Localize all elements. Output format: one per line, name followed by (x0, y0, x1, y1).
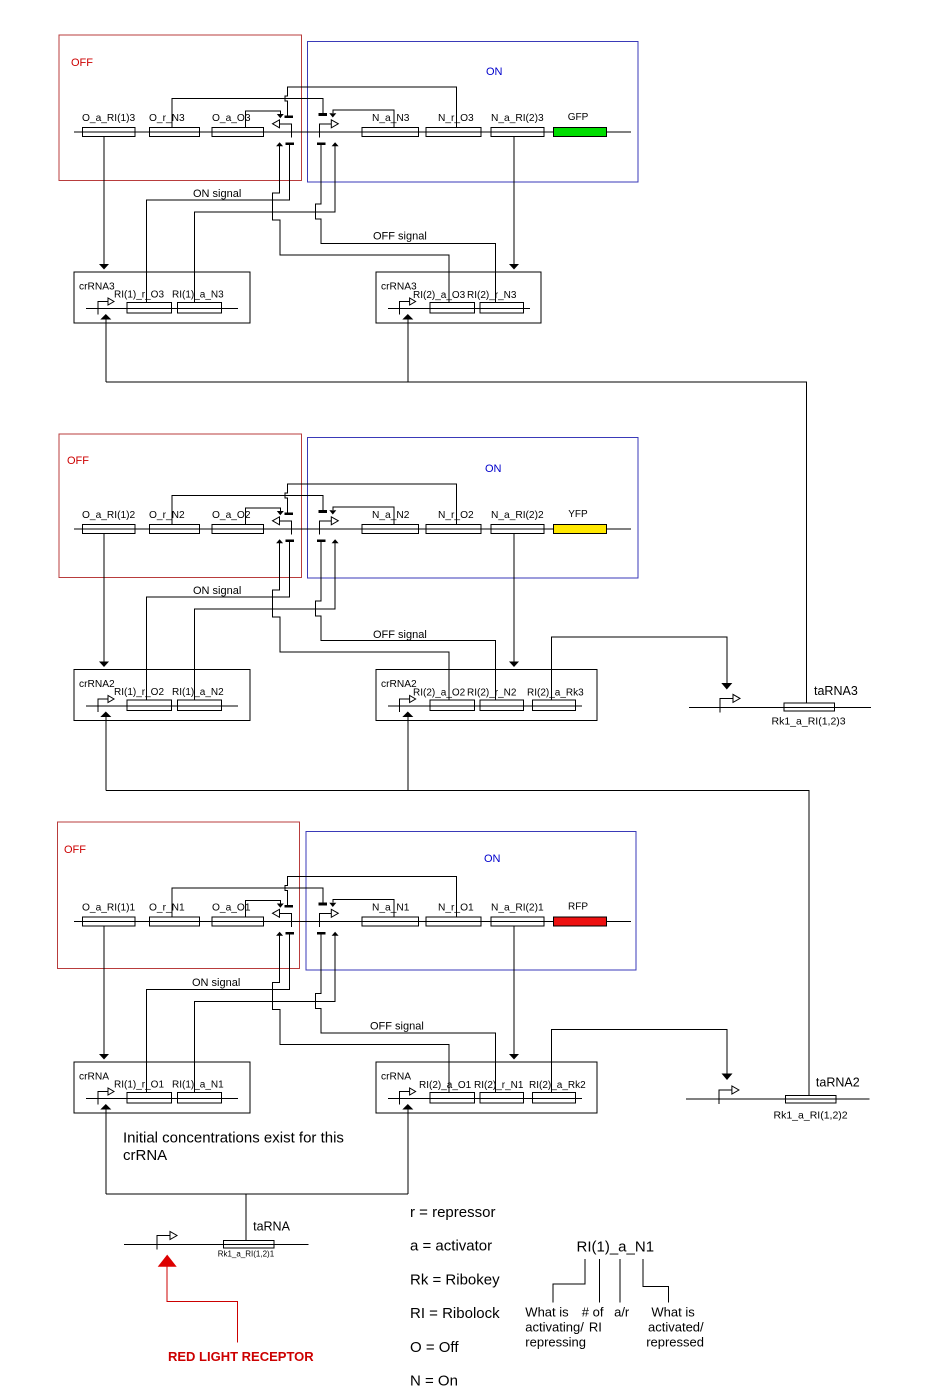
block RI(2)_a_Rk2 (tier 1) (533, 1093, 576, 1103)
svg-text:ON signal: ON signal (193, 188, 241, 200)
svg-text:activating/: activating/ (525, 1320, 584, 1335)
wire N_a_RI(2)3 to right crRNA box (tier 3) (513, 137, 515, 265)
activation arrowhead on OFF promoter (tier 3) (277, 114, 284, 118)
svg-text:O_a_RI(1)1: O_a_RI(1)1 (82, 903, 136, 914)
svg-text:crRNA: crRNA (123, 1147, 167, 1164)
repression bar on ON promoter (tier 2) (319, 510, 327, 513)
svg-text:O = Off: O = Off (410, 1339, 459, 1356)
wire O_a_RI(1)2 to left crRNA box (tier 2) (103, 534, 105, 662)
crRNA activation arrowhead below ON promoter (tier 1) (332, 932, 339, 936)
taRNA activation arrowhead into left crRNA box (tier 2) (100, 712, 111, 718)
svg-text:N_a_N2: N_a_N2 (372, 510, 410, 521)
svg-text:RI(2)_r_N1: RI(2)_r_N1 (474, 1080, 524, 1091)
crRNA repression bar below ON promoter (tier 3) (317, 142, 325, 145)
svg-text:Rk1_a_RI(1,2)2: Rk1_a_RI(1,2)2 (774, 1110, 848, 1122)
activation arrowhead on taRNA2 promoter (722, 1074, 733, 1081)
activation arrowhead on ON promoter (tier 1) (329, 903, 336, 907)
svg-text:O_a_O1: O_a_O1 (212, 903, 251, 914)
svg-text:N_a_N3: N_a_N3 (372, 113, 410, 124)
legend tick from (1) (599, 1259, 601, 1302)
svg-text:N_a_RI(2)2: N_a_RI(2)2 (491, 510, 544, 521)
svg-text:GFP: GFP (568, 112, 589, 123)
svg-text:ON signal: ON signal (192, 977, 240, 989)
legend tick from N1 (643, 1259, 669, 1302)
crRNA repression bar below ON promoter (tier 2) (317, 539, 325, 542)
activation arrowhead on OFF promoter (tier 2) (277, 511, 284, 515)
svg-text:N_r_O1: N_r_O1 (438, 903, 474, 914)
block RI(1)_a_N3 (tier 3) (177, 303, 221, 313)
red wire from RED LIGHT RECEPTOR (167, 1267, 237, 1343)
gene block N_r_O2 (tier 2) (426, 525, 481, 534)
OFF expression cassette box (tier 3) (59, 35, 302, 181)
arrowhead into right crRNA box (tier 1) (509, 1054, 519, 1060)
repression bar on ON promoter (tier 1) (319, 903, 327, 906)
wire V3 right-crRNA to ON leader (tier 2) (316, 542, 496, 700)
wire O_a_O2 to OFF-promoter activation (tier 2) (246, 508, 281, 524)
svg-text:RI: RI (589, 1320, 602, 1335)
ON promoter (right-pointing) (tier 1) (319, 913, 331, 927)
taRNA2 promoter (719, 1090, 732, 1104)
gene block N_r_O3 (tier 3) (426, 128, 481, 137)
left crRNA promoter (tier 3) (98, 302, 108, 315)
svg-text:N = On: N = On (410, 1373, 458, 1390)
svg-text:What is: What is (651, 1305, 695, 1320)
svg-text:N_r_O2: N_r_O2 (438, 510, 474, 521)
reporter gene block YFP (tier 2) (553, 525, 606, 534)
svg-text:RI(1)_a_N2: RI(1)_a_N2 (172, 687, 224, 698)
right crRNA internal strand (tier 3) (388, 308, 530, 310)
activation arrowhead on OFF promoter (tier 1) (277, 904, 284, 908)
block RI(2)_r_N2 (tier 2) (480, 700, 523, 710)
activation arrowhead on taRNA3 promoter (721, 683, 732, 690)
arrowhead into right crRNA box (tier 3) (509, 264, 519, 270)
svg-text:OFF: OFF (71, 57, 93, 69)
left crRNA promoter (tier 2) (98, 699, 108, 712)
wire N_a_N2 to ON-promoter activation (tier 2) (333, 507, 394, 524)
ON promoter (right-pointing) (tier 3) (319, 124, 331, 138)
svg-text:O_a_O2: O_a_O2 (212, 510, 251, 521)
block RI(2)_r_N1 (tier 1) (480, 1093, 523, 1103)
left crRNA internal strand (tier 2) (86, 705, 238, 707)
svg-text:a = activator: a = activator (410, 1238, 492, 1255)
svg-text:taRNA2: taRNA2 (816, 1076, 860, 1090)
wire N_r_O2 to OFF-promoter repression (tier 2) (285, 484, 457, 525)
gene block N_a_RI(2)2 (tier 2) (491, 525, 544, 534)
left crRNA promoter (tier 1) (98, 1092, 108, 1105)
taRNA activation arrowhead into left crRNA box (tier 1) (100, 1104, 111, 1110)
svg-text:RI(1)_r_O3: RI(1)_r_O3 (114, 290, 164, 301)
block RI(1)_r_O3 (tier 3) (127, 303, 172, 313)
gene block O_r_N3 (tier 3) (149, 128, 199, 137)
gene block O_a_O1 (tier 1) (212, 917, 264, 926)
taRNA promoter (157, 1236, 170, 1250)
gene block O_r_N2 (tier 2) (149, 525, 199, 534)
gene block O_a_O2 (tier 2) (212, 525, 264, 534)
svg-text:RFP: RFP (568, 902, 588, 913)
svg-text:Rk1_a_RI(1,2)3: Rk1_a_RI(1,2)3 (772, 716, 846, 728)
svg-text:crRNA2: crRNA2 (79, 679, 115, 690)
wire N_a_RI(2)1 to right crRNA box (tier 1) (513, 926, 515, 1054)
gene block O_a_RI(1)2 (tier 2) (82, 525, 135, 534)
crRNA activation arrowhead below OFF promoter (tier 1) (276, 932, 283, 936)
wire V4 left-crRNA to ON leader (tier 3) (194, 146, 335, 302)
right crRNA promoter (tier 1) (400, 1092, 410, 1105)
block RI(2)_a_O3 (tier 3) (430, 303, 475, 313)
tier-3 feedback bus from taRNA (106, 1109, 408, 1241)
wire N_r_O1 to OFF-promoter repression (tier 1) (285, 877, 457, 918)
svg-text:N_a_RI(2)1: N_a_RI(2)1 (491, 903, 544, 914)
svg-text:O_r_N2: O_r_N2 (149, 510, 185, 521)
right crRNA box (tier 2) (376, 670, 597, 721)
svg-text:RI(1)_a_N3: RI(1)_a_N3 (172, 290, 224, 301)
OFF promoter (left-pointing) (tier 2) (280, 521, 292, 535)
gene block O_r_N1 (tier 1) (149, 917, 199, 926)
block RI(1)_r_O1 (tier 1) (127, 1093, 172, 1103)
tier-1 feedback bus from taRNA3 (106, 320, 807, 704)
repression bar on OFF promoter (tier 3) (284, 115, 292, 118)
svg-text:repressing: repressing (525, 1335, 586, 1350)
left crRNA box (tier 1) (74, 1062, 250, 1113)
svg-text:N_r_O3: N_r_O3 (438, 113, 474, 124)
reporter gene block GFP (tier 3) (553, 128, 606, 137)
svg-text:OFF: OFF (64, 844, 86, 856)
activation arrowhead on ON promoter (tier 2) (329, 510, 336, 514)
wire V3 right-crRNA to ON leader (tier 3) (316, 145, 496, 302)
right crRNA box (tier 1) (376, 1062, 597, 1113)
gene block O_a_RI(1)1 (tier 1) (82, 917, 135, 926)
svg-text:crRNA3: crRNA3 (79, 282, 115, 293)
left crRNA internal strand (tier 1) (86, 1098, 238, 1100)
svg-text:ON: ON (485, 463, 502, 475)
legend tick from RI (553, 1259, 585, 1302)
left crRNA box (tier 3) (74, 272, 250, 323)
arrowhead into left crRNA box (tier 3) (99, 264, 109, 270)
DNA strand line (tier 1) (74, 921, 631, 923)
ON expression cassette box (tier 1) (306, 832, 636, 971)
taRNA activation arrowhead into right crRNA box (tier 1) (402, 1104, 413, 1110)
OFF expression cassette box (tier 2) (59, 434, 302, 578)
svg-text:# of: # of (582, 1305, 604, 1320)
svg-text:crRNA: crRNA (381, 1072, 411, 1083)
svg-text:RED LIGHT RECEPTOR: RED LIGHT RECEPTOR (168, 1349, 314, 1364)
svg-text:taRNA3: taRNA3 (814, 684, 858, 698)
svg-text:ON signal: ON signal (193, 585, 241, 597)
wire V4 left-crRNA to ON leader (tier 1) (194, 936, 335, 1093)
gene block N_a_N3 (tier 3) (362, 128, 419, 137)
OFF expression cassette box (tier 1) (58, 822, 300, 969)
svg-text:RI(2)_r_N2: RI(2)_r_N2 (467, 688, 517, 699)
reporter gene block RFP (tier 1) (553, 917, 606, 926)
crRNA activation arrowhead below ON promoter (tier 2) (332, 539, 339, 543)
wire V2 left-crRNA to OFF leader (tier 3) (146, 145, 289, 302)
svg-text:OFF signal: OFF signal (370, 1021, 424, 1033)
svg-text:r = repressor: r = repressor (410, 1204, 495, 1221)
svg-text:N_a_RI(2)3: N_a_RI(2)3 (491, 113, 544, 124)
gene block O_a_O3 (tier 3) (212, 128, 264, 137)
wire V1 right-crRNA to OFF leader (tier 2) (273, 543, 449, 700)
crRNA activation arrowhead below ON promoter (tier 3) (332, 142, 339, 146)
svg-text:O_a_O3: O_a_O3 (212, 113, 251, 124)
gene block O_a_RI(1)3 (tier 3) (82, 128, 135, 137)
wire N_a_N1 to ON-promoter activation (tier 1) (333, 900, 394, 917)
svg-text:RI(2)_a_Rk2: RI(2)_a_Rk2 (529, 1080, 586, 1091)
svg-text:ON: ON (486, 66, 503, 78)
activation arrowhead on ON promoter (tier 3) (329, 113, 336, 117)
svg-text:repressed: repressed (646, 1335, 704, 1350)
crRNA activation arrowhead below OFF promoter (tier 3) (276, 142, 283, 146)
taRNA3 promoter (720, 698, 733, 712)
right crRNA promoter (tier 2) (400, 699, 410, 712)
block RI(1)_a_N1 (tier 1) (177, 1093, 221, 1103)
wire V2 left-crRNA to OFF leader (tier 2) (146, 542, 289, 700)
wire O_r_N1 to ON-promoter repression (tier 1) (172, 888, 323, 917)
svg-text:RI(1)_a_N1: RI(1)_a_N1 (172, 1080, 224, 1091)
taRNA strand line (124, 1244, 309, 1246)
wire O_a_O1 to OFF-promoter activation (tier 1) (246, 901, 281, 917)
ON expression cassette box (tier 3) (308, 42, 639, 183)
repression bar on OFF promoter (tier 2) (284, 512, 292, 515)
block RI(2)_a_O1 (tier 1) (430, 1093, 475, 1103)
svg-text:RI(1)_r_O1: RI(1)_r_O1 (114, 1080, 164, 1091)
svg-text:OFF signal: OFF signal (373, 629, 427, 641)
svg-text:O_r_N1: O_r_N1 (149, 903, 185, 914)
taRNA3 strand line (689, 706, 871, 708)
block RI(1)_r_O2 (tier 2) (127, 700, 172, 710)
crRNA activation arrowhead below OFF promoter (tier 2) (276, 539, 283, 543)
wire RI(2)_a_Rk2 to taRNA2 promoter (551, 1029, 727, 1092)
crRNA repression bar below OFF promoter (tier 3) (286, 142, 294, 145)
taRNA3 gene block Rk1_a_RI(1,2)3 (784, 703, 835, 711)
svg-text:O_a_RI(1)3: O_a_RI(1)3 (82, 113, 136, 124)
svg-text:crRNA2: crRNA2 (381, 679, 417, 690)
crRNA repression bar below ON promoter (tier 1) (317, 932, 325, 935)
svg-text:taRNA: taRNA (253, 1220, 290, 1234)
left crRNA box (tier 2) (74, 670, 250, 721)
ON promoter (right-pointing) (tier 2) (319, 521, 331, 535)
svg-text:RI(2)_a_O3: RI(2)_a_O3 (413, 290, 466, 301)
svg-text:OFF: OFF (67, 455, 89, 467)
right crRNA box (tier 3) (376, 272, 541, 323)
wire O_a_RI(1)1 to left crRNA box (tier 1) (103, 926, 105, 1054)
ON expression cassette box (tier 2) (308, 438, 639, 579)
gene block N_a_RI(2)3 (tier 3) (491, 128, 544, 137)
wire N_a_RI(2)2 to right crRNA box (tier 2) (513, 534, 515, 662)
red activation arrowhead on taRNA promoter (158, 1255, 177, 1267)
svg-text:Initial concentrations exist f: Initial concentrations exist for this (123, 1130, 344, 1147)
block RI(2)_r_N3 (tier 3) (480, 303, 523, 313)
crRNA repression bar below OFF promoter (tier 2) (286, 539, 294, 542)
right crRNA internal strand (tier 2) (388, 705, 582, 707)
crRNA repression bar below OFF promoter (tier 1) (286, 932, 294, 935)
svg-text:N_a_N1: N_a_N1 (372, 903, 410, 914)
svg-text:Rk1_a_RI(1,2)1: Rk1_a_RI(1,2)1 (218, 1250, 275, 1259)
svg-text:OFF signal: OFF signal (373, 231, 427, 243)
OFF promoter (left-pointing) (tier 1) (280, 913, 292, 927)
svg-text:YFP: YFP (568, 509, 588, 520)
svg-text:RI(2)_a_Rk3: RI(2)_a_Rk3 (527, 688, 584, 699)
svg-text:Rk = Ribokey: Rk = Ribokey (410, 1271, 500, 1288)
repression bar on ON promoter (tier 3) (319, 113, 327, 116)
wire N_a_N3 to ON-promoter activation (tier 3) (333, 110, 394, 127)
gene block N_a_RI(2)1 (tier 1) (491, 917, 544, 926)
svg-text:RI(2)_a_O2: RI(2)_a_O2 (413, 688, 466, 699)
wire O_a_O3 to OFF-promoter activation (tier 3) (246, 111, 281, 127)
svg-text:RI(2)_r_N3: RI(2)_r_N3 (467, 290, 517, 301)
taRNA activation arrowhead into right crRNA box (tier 3) (402, 314, 413, 320)
svg-text:RI(1)_r_O2: RI(1)_r_O2 (114, 687, 164, 698)
DNA strand line (tier 2) (74, 528, 631, 530)
taRNA gene block Rk1_a_RI(1,2)1 (224, 1241, 274, 1249)
taRNA2 strand line (686, 1098, 870, 1100)
svg-text:RI(2)_a_O1: RI(2)_a_O1 (419, 1080, 472, 1091)
gene block N_r_O1 (tier 1) (426, 917, 481, 926)
svg-text:activated/: activated/ (648, 1320, 704, 1335)
left crRNA internal strand (tier 3) (86, 308, 238, 310)
svg-text:O_r_N3: O_r_N3 (149, 113, 185, 124)
block RI(2)_a_Rk3 (tier 2) (533, 700, 576, 710)
taRNA2 gene block Rk1_a_RI(1,2)2 (785, 1095, 836, 1103)
taRNA activation arrowhead into right crRNA box (tier 2) (402, 712, 413, 718)
block RI(1)_a_N2 (tier 2) (177, 700, 221, 710)
OFF promoter (left-pointing) (tier 3) (280, 124, 292, 138)
svg-text:RI(1)_a_N1: RI(1)_a_N1 (577, 1239, 655, 1256)
wire O_r_N2 to ON-promoter repression (tier 2) (172, 495, 323, 524)
svg-text:O_a_RI(1)2: O_a_RI(1)2 (82, 510, 136, 521)
wire V3 right-crRNA to ON leader (tier 1) (316, 935, 496, 1093)
gene block N_a_N1 (tier 1) (362, 917, 419, 926)
right crRNA internal strand (tier 1) (388, 1098, 582, 1100)
legend tick from a (619, 1259, 621, 1302)
right crRNA promoter (tier 3) (400, 302, 410, 315)
arrowhead into right crRNA box (tier 2) (509, 662, 519, 668)
wire V1 right-crRNA to OFF leader (tier 1) (273, 936, 449, 1093)
DNA strand line (tier 3) (74, 131, 631, 133)
svg-text:What is: What is (525, 1305, 569, 1320)
block RI(2)_a_O2 (tier 2) (430, 700, 475, 710)
taRNA activation arrowhead into left crRNA box (tier 3) (100, 314, 111, 320)
wire O_a_RI(1)3 to left crRNA box (tier 3) (103, 137, 105, 265)
arrowhead into left crRNA box (tier 1) (99, 1054, 109, 1060)
svg-text:crRNA: crRNA (79, 1072, 109, 1083)
tier-2 feedback bus from taRNA2 (106, 717, 809, 1096)
wire V1 right-crRNA to OFF leader (tier 3) (273, 146, 449, 302)
wire N_r_O3 to OFF-promoter repression (tier 3) (285, 87, 457, 128)
wire O_r_N3 to ON-promoter repression (tier 3) (172, 98, 323, 127)
wire V4 left-crRNA to ON leader (tier 2) (194, 543, 335, 700)
repression bar on OFF promoter (tier 1) (284, 905, 292, 908)
gene block N_a_N2 (tier 2) (362, 525, 419, 534)
svg-text:RI = Ribolock: RI = Ribolock (410, 1305, 500, 1322)
svg-text:ON: ON (484, 853, 501, 865)
wire RI(2)_a_Rk3 to taRNA3 promoter (552, 637, 727, 700)
svg-text:crRNA3: crRNA3 (381, 282, 417, 293)
svg-text:a/r: a/r (614, 1305, 630, 1320)
arrowhead into left crRNA box (tier 2) (99, 662, 109, 668)
wire V2 left-crRNA to OFF leader (tier 1) (146, 935, 289, 1093)
